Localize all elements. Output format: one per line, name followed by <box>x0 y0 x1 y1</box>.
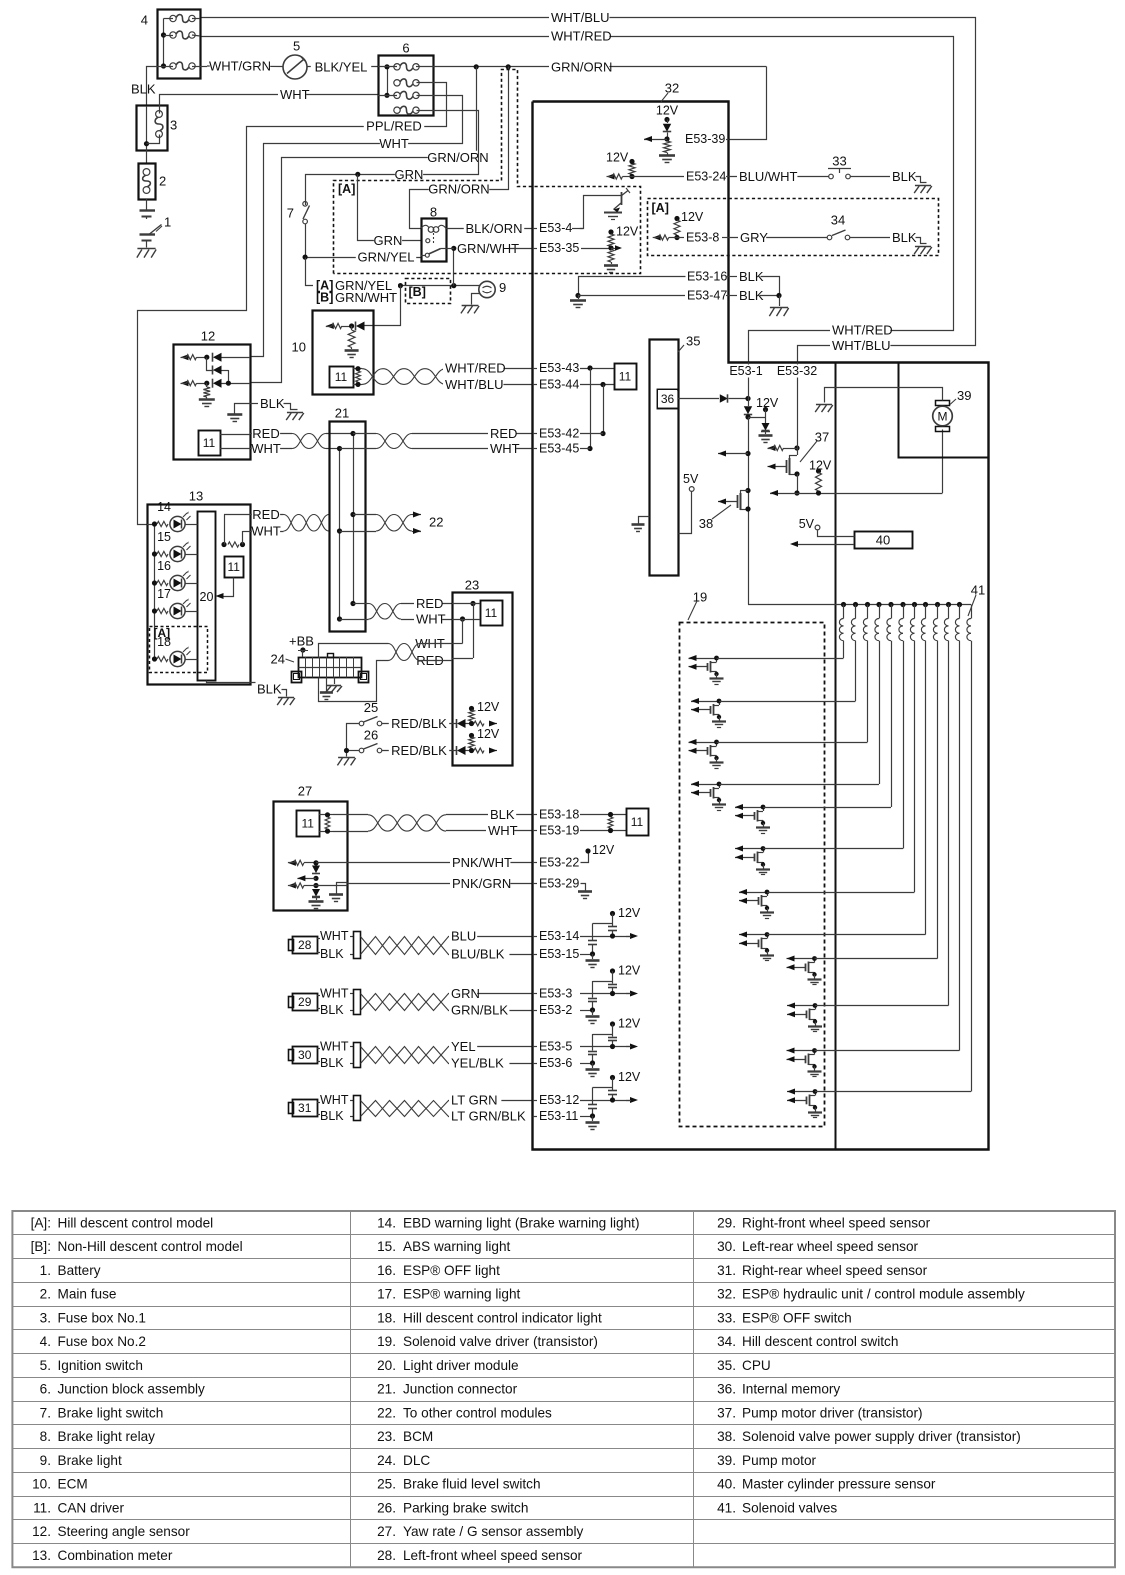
svg-text:40.: 40. <box>717 1477 736 1492</box>
svg-text:19: 19 <box>693 590 707 605</box>
wire RED meter to junction connector <box>250 514 284 516</box>
wire WHT/GRN <box>207 65 283 68</box>
svg-text:20: 20 <box>200 590 214 604</box>
wire GRN/WHT up to relay output <box>453 248 455 285</box>
wire fuse3 bottom to bus <box>147 135 160 144</box>
CPU (35) <box>650 340 679 576</box>
svg-text:Brake light: Brake light <box>58 1453 122 1468</box>
EBD warning light (14) <box>152 521 157 526</box>
dashed box [B] non-hill descent <box>406 279 451 304</box>
brake light input transistor <box>578 196 622 229</box>
svg-text:WHT: WHT <box>320 1093 349 1107</box>
svg-text:E53-43: E53-43 <box>539 361 579 375</box>
svg-text:GRN/BLK: GRN/BLK <box>451 1003 508 1018</box>
junction bus WHT <box>339 449 341 620</box>
fuse in box 3 <box>156 111 163 118</box>
svg-text:ESP® OFF switch: ESP® OFF switch <box>742 1310 852 1325</box>
wire GRN/ORN stair to steering angle sensor <box>251 67 477 383</box>
solenoid valve driver transistor 9 (19) <box>787 958 815 960</box>
wire BLU/BLK to ESP <box>448 954 533 956</box>
svg-text:34: 34 <box>831 213 845 228</box>
svg-text:5: 5 <box>293 39 300 54</box>
svg-text:12V: 12V <box>477 700 500 714</box>
wire RED/BLK parking brake switch <box>382 750 456 752</box>
wire WHT meter to junction connector <box>250 531 284 533</box>
svg-text:[B]: [B] <box>409 285 426 299</box>
svg-text:M: M <box>938 410 948 424</box>
svg-text:Ignition switch: Ignition switch <box>58 1358 143 1373</box>
wire WHT DLC to BCM <box>319 644 389 658</box>
svg-text:Brake fluid level switch: Brake fluid level switch <box>403 1477 541 1492</box>
label WHT <box>278 88 306 102</box>
pin E53-4 <box>537 222 580 235</box>
left-front wheel speed sensor (28) <box>289 940 294 951</box>
wire YEL to ESP <box>448 1046 533 1048</box>
svg-text:E53-18: E53-18 <box>539 808 579 822</box>
svg-text:6.: 6. <box>40 1382 51 1397</box>
svg-text:E53-24: E53-24 <box>686 170 726 184</box>
wire WHT/RED from fuse box No.2 to ESP unit E53-1 <box>201 37 954 363</box>
BCM input circuit 25 <box>457 719 466 728</box>
svg-text:34.: 34. <box>717 1334 736 1349</box>
yaw internal ground hook <box>337 883 348 894</box>
svg-text:35: 35 <box>686 334 700 349</box>
wire GRY to hill descent switch <box>729 237 827 239</box>
svg-text:11: 11 <box>227 560 240 574</box>
svg-text:BLK: BLK <box>320 1056 344 1070</box>
svg-text:E53-42: E53-42 <box>539 427 579 441</box>
yaw CAN resistor <box>319 814 333 816</box>
svg-text:E53-44: E53-44 <box>539 378 579 392</box>
CAN driver (11) ESP lower <box>627 809 649 836</box>
svg-text:10: 10 <box>292 340 306 355</box>
ESP internal partition <box>835 362 837 1149</box>
hill descent indicator light (18) <box>152 656 157 661</box>
svg-text:Non-Hill descent control model: Non-Hill descent control model <box>58 1239 243 1254</box>
svg-text:26.: 26. <box>377 1500 396 1515</box>
svg-text:9: 9 <box>499 280 506 295</box>
svg-text:Solenoid valve driver (transis: Solenoid valve driver (transistor) <box>403 1334 598 1349</box>
yaw sensor row PNK/WHT <box>288 860 296 866</box>
BCM WHT row <box>460 616 465 621</box>
wire BLK E53-47 external ground <box>729 295 737 297</box>
svg-text:4: 4 <box>141 13 148 28</box>
solenoid feed bus from driver 38 <box>748 604 971 606</box>
label WHT E53-45 <box>488 442 516 456</box>
svg-text:Left-rear wheel speed sensor: Left-rear wheel speed sensor <box>742 1239 919 1254</box>
pump motor driver transistor (37) <box>789 455 797 457</box>
svg-text:37: 37 <box>815 430 829 445</box>
solenoid valve coil 3 (41) <box>867 605 869 619</box>
svg-text:27: 27 <box>298 784 312 799</box>
twisted pair sensor 12 to junction connector <box>292 434 326 449</box>
brake fluid level switch (25) <box>359 721 364 726</box>
BCM RED row <box>470 601 475 606</box>
wire GRN/ORN to brake light relay coil <box>410 67 509 229</box>
wire GRN to relay contact <box>358 175 422 241</box>
ECM diode row <box>326 323 334 329</box>
CAN link to CPU <box>590 368 592 449</box>
svg-text:DLC: DLC <box>403 1453 430 1468</box>
svg-text:7: 7 <box>287 206 294 221</box>
ESP OFF switch (33) <box>829 174 834 179</box>
svg-text:31.: 31. <box>717 1263 736 1278</box>
twisted pair sensor 31 <box>361 1101 449 1117</box>
svg-text:31: 31 <box>298 1101 312 1115</box>
wire YEL/BLK to ESP <box>448 1063 533 1065</box>
svg-text:RED: RED <box>252 507 279 522</box>
svg-text:E53-5: E53-5 <box>539 1040 572 1054</box>
svg-text:Light driver module: Light driver module <box>403 1358 519 1373</box>
sensor row 1 <box>181 354 189 360</box>
ECM resistor ground <box>351 326 353 330</box>
wire RED DLC to BCM <box>319 661 389 702</box>
svg-text:5V: 5V <box>799 517 815 531</box>
svg-text:10.: 10. <box>32 1477 51 1492</box>
svg-text:WHT: WHT <box>320 1040 349 1054</box>
svg-text:E53-22: E53-22 <box>539 856 579 870</box>
svg-text:YEL/BLK: YEL/BLK <box>451 1056 504 1071</box>
svg-text:E53-45: E53-45 <box>539 442 579 456</box>
wire box2 to battery <box>146 199 148 210</box>
svg-text:BCM: BCM <box>403 1429 433 1444</box>
svg-text:E53-11: E53-11 <box>539 1109 578 1123</box>
svg-text:39.: 39. <box>717 1453 736 1468</box>
svg-text:12V: 12V <box>616 225 639 239</box>
svg-text:Hill descent control indicator: Hill descent control indicator light <box>403 1310 602 1325</box>
svg-text:23.: 23. <box>377 1429 396 1444</box>
dashed boundary [A] hill descent control model left <box>334 70 641 274</box>
svg-text:12V: 12V <box>656 104 679 118</box>
ground below battery <box>137 248 155 250</box>
svg-text:E53-35: E53-35 <box>539 241 579 255</box>
svg-text:E53-14: E53-14 <box>539 929 579 943</box>
solenoid valve coil 1 (41) <box>843 605 845 619</box>
svg-text:9.: 9. <box>40 1453 51 1468</box>
sensor 40 signal arrow <box>798 544 854 546</box>
ESP hydraulic unit / control module assembly (32) <box>533 102 989 1150</box>
twisted pair DLC to BCM <box>388 644 420 661</box>
svg-text:WHT/GRN: WHT/GRN <box>209 59 271 74</box>
svg-text:[A]:: [A]: <box>31 1215 51 1230</box>
svg-text:[B]: [B] <box>316 291 333 305</box>
svg-text:BLU/WHT: BLU/WHT <box>739 169 798 184</box>
svg-text:3.: 3. <box>40 1310 51 1325</box>
svg-text:12V: 12V <box>618 1070 641 1084</box>
svg-text:12V: 12V <box>606 151 629 165</box>
relay coil <box>428 227 434 233</box>
ESP warning light (17) <box>152 608 157 613</box>
solenoid valve driver transistor 11 (19) <box>787 1050 815 1052</box>
wire GRN/ORN main bus from junction block <box>416 66 434 68</box>
svg-text:Combination meter: Combination meter <box>58 1548 173 1563</box>
svg-text:22: 22 <box>429 515 443 530</box>
svg-text:RED: RED <box>252 426 279 441</box>
wire WHT stair to steering angle sensor <box>251 96 463 357</box>
svg-text:33: 33 <box>832 154 846 169</box>
solenoid valve power supply driver transistor (38) <box>745 488 750 493</box>
diode memory to E53-1 line <box>678 398 719 400</box>
bus inside box 4 <box>163 19 165 67</box>
DLC left ear <box>292 672 302 683</box>
junction connector (21) <box>330 422 366 632</box>
label WHT/BLU <box>549 11 609 25</box>
svg-text:40: 40 <box>876 533 890 548</box>
fuse in junction block row 3 <box>394 92 400 98</box>
svg-text:Parking brake switch: Parking brake switch <box>403 1500 528 1515</box>
svg-text:8.: 8. <box>40 1429 51 1444</box>
svg-text:EBD warning light (Brake warni: EBD warning light (Brake warning light) <box>403 1215 639 1230</box>
svg-text:36.: 36. <box>717 1382 736 1397</box>
svg-text:E53-32: E53-32 <box>777 364 817 378</box>
solenoid valve driver transistor 1 (19) <box>689 658 717 660</box>
switch ground link <box>347 724 360 757</box>
svg-text:CAN driver: CAN driver <box>58 1500 125 1515</box>
svg-text:Yaw rate / G sensor assembly: Yaw rate / G sensor assembly <box>403 1524 584 1539</box>
svg-text:29.: 29. <box>717 1215 736 1230</box>
svg-text:RED/BLK: RED/BLK <box>391 716 447 731</box>
solenoid valve coil 8 (41) <box>925 605 927 619</box>
wire BLK from switch 33 to ground <box>851 176 891 178</box>
wire BLK to E53-18 <box>446 814 533 816</box>
ECM CAN resistor <box>353 368 362 370</box>
svg-text:RED: RED <box>490 426 517 441</box>
wire WHT sensor to junction connector <box>220 448 250 450</box>
svg-text:17: 17 <box>157 587 171 601</box>
solenoid valve driver box (19) <box>680 623 825 1127</box>
svg-text:BLK: BLK <box>892 169 917 184</box>
fuse in junction block row 4 <box>394 107 400 113</box>
fuse in box 4 row 2 <box>170 32 176 38</box>
CAN driver (11) in sensor 12 <box>199 431 221 456</box>
pump motor (39) <box>936 401 950 406</box>
wire BLK sensor ground external <box>250 403 258 405</box>
svg-text:1.: 1. <box>40 1263 51 1278</box>
wire WHT to E53-19 <box>446 830 533 832</box>
svg-text:19.: 19. <box>377 1334 396 1349</box>
sensor row 2 <box>181 380 189 386</box>
solenoid valve driver transistor 2 (19) <box>691 701 719 703</box>
svg-text:18.: 18. <box>377 1310 396 1325</box>
svg-text:13: 13 <box>189 489 203 504</box>
fuse box No.1 (3) <box>137 106 168 151</box>
wire RED sensor to junction connector <box>220 434 250 436</box>
svg-text:Internal memory: Internal memory <box>742 1382 840 1397</box>
sensor resistor to ground <box>206 383 208 387</box>
svg-text:Junction block assembly: Junction block assembly <box>58 1382 206 1397</box>
svg-text:WHT/RED: WHT/RED <box>445 361 506 376</box>
svg-text:Steering angle sensor: Steering angle sensor <box>58 1524 191 1539</box>
pump motor enclosure <box>899 363 989 458</box>
master cylinder pressure sensor (40) <box>855 532 913 549</box>
svg-text:BLK: BLK <box>739 269 764 284</box>
svg-text:12V: 12V <box>477 727 500 741</box>
svg-text:BLK: BLK <box>260 396 285 411</box>
svg-text:Main fuse: Main fuse <box>58 1287 117 1302</box>
battery feed through box 3 <box>146 106 148 164</box>
relay fixed contact <box>426 239 430 243</box>
svg-text:38.: 38. <box>717 1429 736 1444</box>
svg-text:36: 36 <box>661 392 675 406</box>
left-rear wheel speed sensor (30) <box>289 1050 294 1061</box>
connector bar sensor 28 <box>350 936 354 938</box>
CAN driver (11) in ESP <box>615 364 637 390</box>
svg-text:41.: 41. <box>717 1500 736 1515</box>
svg-text:BLK/ORN: BLK/ORN <box>465 221 522 236</box>
svg-text:11: 11 <box>485 606 498 620</box>
svg-text:28.: 28. <box>377 1548 396 1563</box>
solenoid valve coil 2 (41) <box>855 605 857 619</box>
svg-text:33.: 33. <box>717 1310 736 1325</box>
ABS warning light (15) <box>152 551 157 556</box>
DLC nub <box>328 654 334 658</box>
svg-text:17.: 17. <box>377 1287 396 1302</box>
svg-text:E53-47: E53-47 <box>687 289 727 303</box>
combination meter (13) <box>148 505 251 685</box>
svg-text:GRN: GRN <box>395 167 424 182</box>
svg-text:E53-12: E53-12 <box>539 1093 579 1107</box>
diode on E53-1 rail <box>744 406 752 414</box>
bus inside junction block <box>387 67 389 96</box>
svg-text:2.: 2. <box>40 1287 51 1302</box>
twisted pair sensor 28 <box>361 937 449 955</box>
twisted pair meter to junction connector <box>284 515 330 532</box>
svg-text:GRN/WHT: GRN/WHT <box>335 290 397 305</box>
solenoid valve driver transistor 7 (19) <box>739 892 767 894</box>
svg-text:[B]:: [B]: <box>31 1239 51 1254</box>
svg-text:GRN/WHT: GRN/WHT <box>457 241 519 256</box>
svg-text:Junction connector: Junction connector <box>403 1382 518 1397</box>
svg-text:GRN/YEL: GRN/YEL <box>357 250 414 265</box>
svg-text:PNK/WHT: PNK/WHT <box>452 855 512 870</box>
CAN driver (11) in BCM <box>481 601 503 626</box>
DLC ground 2 <box>334 678 336 685</box>
svg-text:E53-29: E53-29 <box>539 877 579 891</box>
wire BLK E53-16 external ground <box>729 276 737 278</box>
svg-text:BLK: BLK <box>320 947 344 961</box>
wire GRN to ESP <box>448 993 533 995</box>
svg-text:BLK: BLK <box>320 1003 344 1017</box>
fuse in junction block row 2 <box>394 80 400 86</box>
svg-text:7.: 7. <box>40 1405 51 1420</box>
svg-text:12.: 12. <box>32 1524 51 1539</box>
svg-text:BLK: BLK <box>320 1109 344 1123</box>
pump motor driver gate pull <box>768 445 776 451</box>
wire WHT junction to ESP E53-45 <box>340 448 377 450</box>
ignition switch (5) <box>283 55 307 79</box>
meter LED bus <box>147 524 155 526</box>
twisted pair sensor 30 <box>361 1047 449 1064</box>
svg-text:LT GRN: LT GRN <box>451 1093 497 1108</box>
svg-text:RED/BLK: RED/BLK <box>391 743 447 758</box>
label WHT/RED right <box>830 323 890 337</box>
svg-text:Hill descent control switch: Hill descent control switch <box>742 1334 898 1349</box>
svg-text:[A]: [A] <box>338 182 355 196</box>
brake light ground <box>472 294 481 305</box>
solenoid valve coil 6 (41) <box>903 605 905 619</box>
wire box4 row3 out right <box>192 66 207 68</box>
svg-text:E53-3: E53-3 <box>539 987 572 1001</box>
svg-text:GRN: GRN <box>374 233 403 248</box>
wire WHT from box3 to junction block <box>160 95 379 114</box>
DLC (24) <box>299 658 362 678</box>
svg-text:8: 8 <box>430 205 437 220</box>
svg-text:PPL/RED: PPL/RED <box>366 119 422 134</box>
svg-text:To other control modules: To other control modules <box>403 1405 552 1420</box>
solenoid valve coil 7 (41) <box>914 605 916 619</box>
solenoid valve coil 5 (41) <box>891 605 893 619</box>
main fuse (2) <box>139 164 156 200</box>
svg-text:23: 23 <box>465 578 479 593</box>
svg-text:WHT/BLU: WHT/BLU <box>445 377 504 392</box>
label WHT/RED <box>549 29 609 43</box>
wire WHT/RED to E53-43 <box>446 368 533 370</box>
svg-text:Left-front wheel speed sensor: Left-front wheel speed sensor <box>403 1548 583 1563</box>
pin E53-32 feed <box>772 365 823 378</box>
relay armature link <box>433 233 435 244</box>
motor drive rail <box>770 493 797 495</box>
svg-text:E53-15: E53-15 <box>539 947 579 961</box>
solenoid valve driver transistor 10 (19) <box>787 1005 815 1007</box>
fuse in junction block row 1 <box>394 64 400 70</box>
wire LT GRN to ESP <box>448 1100 533 1102</box>
solenoid valve driver transistor 6 (19) <box>735 848 763 850</box>
wire BLK/YEL <box>307 66 378 68</box>
yaw diode chain <box>312 866 320 874</box>
svg-text:WHT: WHT <box>251 441 281 456</box>
svg-text:11.: 11. <box>33 1500 51 1515</box>
right-front wheel speed sensor (29) <box>289 997 294 1008</box>
brake light switch (7) <box>305 202 307 205</box>
svg-text:WHT: WHT <box>416 612 446 627</box>
svg-text:WHT/RED: WHT/RED <box>551 29 612 44</box>
svg-text:BLK: BLK <box>892 230 917 245</box>
svg-text:E53-8: E53-8 <box>686 231 719 245</box>
svg-text:Solenoid valve power supply dr: Solenoid valve power supply driver (tran… <box>742 1429 1021 1444</box>
twisted pair junction to ESP <box>376 434 412 449</box>
svg-text:35.: 35. <box>717 1358 736 1373</box>
svg-text:E53-4: E53-4 <box>539 221 572 235</box>
svg-text:[A]: [A] <box>154 626 171 640</box>
wire GRN stair to brake light switch <box>306 111 479 203</box>
fuse in box 4 row 1 <box>170 15 176 21</box>
dashed box [A] around LED 18 <box>150 627 208 673</box>
arrow from CAN driver to module 20 <box>219 578 234 597</box>
svg-text:16.: 16. <box>377 1263 396 1278</box>
svg-text:39: 39 <box>957 388 971 403</box>
svg-text:ECM: ECM <box>58 1477 88 1492</box>
twisted pair junction to BCM <box>369 604 402 620</box>
CAN driver (11) in meter <box>225 557 244 578</box>
svg-text:E53-1: E53-1 <box>729 364 762 378</box>
svg-text:Right-rear wheel speed sensor: Right-rear wheel speed sensor <box>742 1263 928 1278</box>
svg-text:E53-6: E53-6 <box>539 1056 572 1070</box>
svg-text:11: 11 <box>619 370 632 384</box>
svg-text:27.: 27. <box>377 1524 396 1539</box>
yaw sensor row PNK/GRN <box>288 883 296 889</box>
solenoid valve coil 9 (41) <box>937 605 939 619</box>
svg-text:37.: 37. <box>717 1405 736 1420</box>
svg-text:LT GRN/BLK: LT GRN/BLK <box>451 1109 526 1124</box>
svg-text:38: 38 <box>699 516 713 531</box>
DLC right ear <box>359 672 369 683</box>
legend table grid <box>12 1211 1115 1567</box>
BCM (23) <box>453 593 513 766</box>
svg-text:WHT: WHT <box>280 87 310 102</box>
fuse in box 4 row 3 <box>170 63 176 69</box>
svg-text:WHT: WHT <box>490 441 520 456</box>
svg-text:PNK/GRN: PNK/GRN <box>452 876 511 891</box>
